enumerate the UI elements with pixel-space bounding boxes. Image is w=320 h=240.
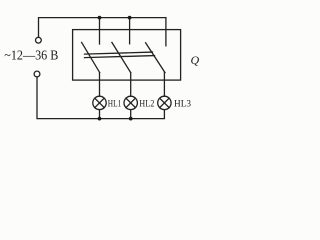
switch Q pole 2 blade (112, 42, 131, 72)
svg-text:HL1: HL1 (108, 99, 122, 110)
svg-text:Q: Q (191, 53, 200, 67)
terminal X2 (lower input, open circle) (34, 71, 40, 77)
svg-text:HL2: HL2 (139, 99, 154, 110)
switch Q shaft (double linkage bar) (85, 52, 153, 54)
switch Q pole 1 blade (82, 42, 100, 72)
wire: pole 2 top lead (129, 18, 131, 44)
junction dot: bottom bus / lamp HL1 (98, 117, 102, 121)
wire: pole 2 bottom lead to lamp HL2 (130, 73, 132, 97)
lamp HL2 symbol (124, 96, 137, 109)
wire: pole 1 top lead (99, 18, 101, 44)
junction dot: bottom bus / lamp HL2 (129, 117, 133, 121)
wire: pole 1 bottom lead to lamp HL1 (99, 73, 101, 97)
svg-text:HL3: HL3 (174, 99, 191, 110)
junction dot: top bus / pole 1 (98, 16, 102, 20)
lamp HL1 symbol (93, 96, 106, 109)
wire: pole 3 bottom lead to lamp HL3 (163, 72, 165, 96)
wire: pole 3 top lead (165, 18, 167, 46)
wire: lamp HL1 to bottom bus (99, 110, 101, 119)
terminal X1 (upper input, open circle) (36, 37, 42, 43)
junction dot: top bus / pole 2 (128, 16, 132, 20)
lamp HL3 symbol (158, 96, 171, 109)
wire: top supply bus from input terminal to pole 3 (39, 18, 166, 38)
svg-text:~12—36 В: ~12—36 В (4, 48, 58, 63)
switch box Q outline (73, 30, 181, 81)
wire: bottom return bus from lower terminal to lamp HL3 (37, 77, 164, 119)
wire: lamp HL2 to bottom bus (130, 110, 132, 119)
switch Q pole 3 blade (146, 43, 165, 73)
